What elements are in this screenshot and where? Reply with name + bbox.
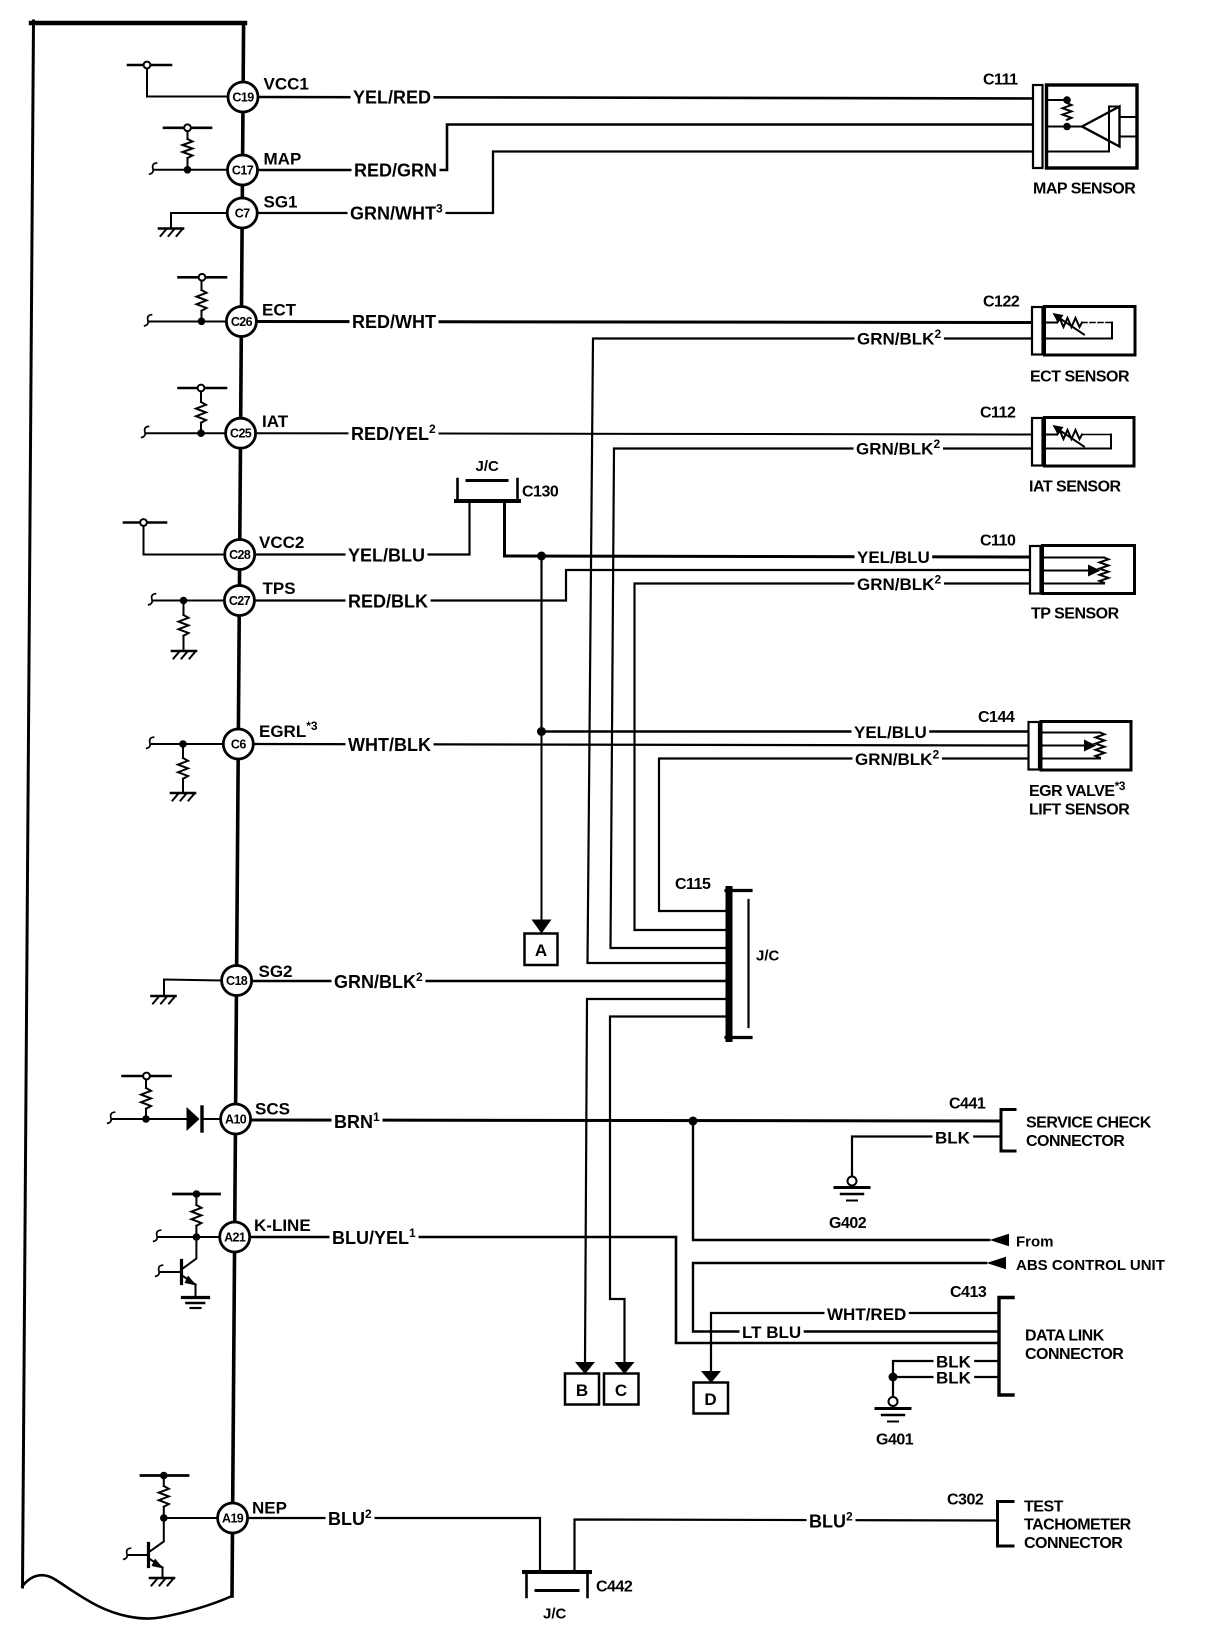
svg-text:TACHOMETER: TACHOMETER: [1024, 1517, 1132, 1534]
pull-down for pin C27: junction, resistor, ground: [149, 594, 226, 659]
off-page arrow B: [565, 1362, 599, 1405]
junction dot on A21 supply bar: [193, 1190, 201, 1198]
transistor base lead: [161, 1271, 182, 1273]
ground (hatch): [172, 650, 196, 653]
wire GRN/WHT3: pin C7 to MAP sensor: [258, 152, 1034, 214]
svg-text:CONNECTOR: CONNECTOR: [1024, 1535, 1123, 1552]
svg-text:BLK: BLK: [936, 1369, 972, 1388]
svg-text:C7: C7: [235, 207, 250, 221]
EGR valve lift sensor C144: connector bar: [1029, 722, 1040, 770]
label RED/YEL2: [349, 424, 439, 443]
label WHT/BLK: [346, 737, 434, 754]
ground (hatch): [152, 995, 176, 998]
svg-text:C112: C112: [980, 405, 1016, 422]
pin C28 (VCC2): [225, 540, 255, 570]
MAP sensor C111: connector bar: [1033, 85, 1043, 168]
junction node on BLK pair: [889, 1373, 898, 1382]
pin C7 (SG1): [227, 198, 257, 228]
svg-text:RED/BLK: RED/BLK: [348, 592, 428, 612]
svg-text:A10: A10: [225, 1113, 247, 1127]
junction connector J/C C130: [456, 479, 519, 501]
pin A21 (K-LINE): [220, 1222, 250, 1252]
svg-text:C18: C18: [226, 974, 248, 988]
junction dot on C6 wire: [179, 740, 187, 748]
wire-break hook: [147, 737, 154, 748]
potentiometer wiper arrow: [1041, 745, 1084, 747]
wire RED/GRN: pin C17 to MAP sensor: [257, 125, 1034, 171]
wire GRN/BLK2: pin C18 (SG2) to J/C C115: [252, 980, 727, 982]
wire BLU2: J/C C442 to test tachometer connector: [575, 1520, 999, 1571]
test tachometer connector C302 bracket: [998, 1502, 1014, 1547]
MAP sensor internal: signal node dot: [1063, 123, 1071, 131]
svg-text:ECT: ECT: [262, 301, 297, 320]
label GRN/BLK2 (IAT): [854, 439, 944, 458]
MAP sensor internal: ground return: [1047, 107, 1120, 152]
svg-text:GRN/BLK2: GRN/BLK2: [857, 573, 941, 595]
svg-text:TPS: TPS: [263, 579, 296, 598]
svg-text:RED/GRN: RED/GRN: [354, 161, 437, 181]
junction dot on A19 wire: [160, 1514, 168, 1522]
label GRN/BLK2 (SG2): [332, 972, 426, 991]
resistor (C17 pull-up): [183, 139, 193, 158]
service check connector C441 bracket: [1001, 1110, 1015, 1152]
svg-text:C413: C413: [950, 1284, 987, 1301]
thermistor resistor: [1057, 318, 1082, 327]
label GRN/BLK2 (ECT): [855, 329, 945, 348]
wire BLK: service check connector to ground G402: [852, 1137, 1000, 1177]
resistor (A19 pull-up): [159, 1486, 169, 1507]
junction connector J/C C115: [726, 890, 751, 1039]
internal ground for pin C7: [159, 213, 228, 236]
wire YEL/BLU: branch to EGR valve lift sensor: [542, 730, 1030, 733]
pull-up for pin C28: supply bar and open circle: [124, 519, 226, 554]
svg-text:GRN/BLK2: GRN/BLK2: [334, 970, 423, 992]
svg-text:EGR VALVE*3: EGR VALVE*3: [1029, 779, 1126, 800]
transistor Q (NEP driver): collector: [151, 1518, 164, 1551]
transistor Q (K-line driver): collector: [184, 1237, 197, 1268]
svg-text:A19: A19: [222, 1512, 244, 1526]
wire from C28 pull-up down and right to pin C28: [144, 526, 227, 555]
pin C19 (VCC1): [228, 82, 258, 112]
svg-text:WHT/RED: WHT/RED: [827, 1305, 906, 1324]
label BLK (service check): [933, 1130, 974, 1146]
wire LT BLU: data link connector to ABS arrow: [693, 1263, 998, 1332]
svg-text:GRN/BLK2: GRN/BLK2: [855, 748, 939, 770]
svg-text:A: A: [535, 941, 547, 960]
MAP sensor internal: op-amp triangle: [1082, 107, 1120, 147]
wire: J/C C115 to off-page arrow C: [610, 1017, 727, 1363]
svg-text:C130: C130: [522, 484, 559, 501]
svg-text:C28: C28: [229, 548, 251, 562]
svg-text:GRN/WHT3: GRN/WHT3: [350, 202, 443, 224]
wire-break hook: [154, 1230, 161, 1241]
svg-text:J/C: J/C: [476, 458, 500, 475]
wire-break hook: [150, 163, 157, 174]
pull-up and driver transistor for pin A19: [124, 1472, 218, 1586]
junction node on BRN wire: [689, 1117, 698, 1126]
wire-break hook: [108, 1112, 115, 1123]
junction node on YEL/BLU trunk: [537, 552, 546, 561]
pin C26 (ECT): [226, 307, 256, 337]
label GRN/BLK2 (TP): [855, 574, 945, 593]
pull-up for pin C26: supply bar, open circle, resistor, junction: [145, 274, 227, 326]
pin C18 (SG2): [222, 966, 252, 996]
svg-text:C115: C115: [675, 876, 711, 893]
junction dot on A10 wire: [142, 1115, 150, 1123]
data link connector C413 bracket: [999, 1298, 1013, 1396]
wire RED/BLK: pin C27 to TP sensor: [254, 570, 1031, 601]
wire from C19 pull-up down and right to pin C19: [147, 69, 229, 97]
pull-up for pin C25: supply bar, open circle, resistor, junction: [142, 385, 226, 438]
label RED/WHT: [350, 314, 439, 331]
ground G402: circle and bars: [848, 1177, 857, 1186]
pin C25 (IAT): [226, 418, 256, 448]
svg-text:C17: C17: [232, 164, 254, 178]
label YEL/RED: [351, 89, 434, 106]
svg-text:WHT/BLK: WHT/BLK: [348, 735, 431, 755]
svg-text:C111: C111: [983, 72, 1018, 89]
svg-text:LIFT SENSOR: LIFT SENSOR: [1029, 802, 1130, 819]
svg-text:LT BLU: LT BLU: [742, 1323, 801, 1342]
ECM enclosure top border: [31, 21, 245, 26]
ground (hatch) for A19 transistor: [150, 1577, 174, 1580]
svg-text:ABS CONTROL UNIT: ABS CONTROL UNIT: [1016, 1257, 1165, 1274]
junction dot on A21 wire: [193, 1233, 201, 1241]
label LT BLU: [740, 1325, 804, 1341]
svg-text:C27: C27: [229, 594, 251, 608]
ground (bar stack) for A21 transistor: [183, 1296, 209, 1299]
label BLU2 (left): [326, 1509, 375, 1528]
wire BLU2: pin A19 to J/C C442: [247, 1518, 540, 1570]
label RED/BLK: [346, 593, 431, 610]
transistor emitter with arrow: [151, 1560, 163, 1568]
EGR valve lift sensor C144: body (potentiometer): [1041, 722, 1131, 771]
svg-text:BLK: BLK: [935, 1129, 971, 1148]
potentiometer wiper arrow: [1043, 570, 1089, 572]
wire YEL/BLU: pin C28 to J/C C130: [254, 502, 470, 555]
svg-text:C144: C144: [978, 709, 1015, 726]
svg-text:TEST: TEST: [1024, 1499, 1064, 1516]
wire BRN1: pin A10 to service check connector: [252, 1120, 1000, 1121]
ground (hatch): [171, 792, 195, 795]
label BLK (data link 2): [934, 1370, 975, 1386]
junction dot on C26 wire: [198, 318, 206, 326]
svg-text:MAP: MAP: [264, 150, 302, 169]
resistor (A10 pull-up): [141, 1088, 151, 1109]
pull-down for pin C6: junction, resistor, ground: [147, 737, 225, 800]
svg-text:IAT SENSOR: IAT SENSOR: [1029, 479, 1122, 496]
pin C17 (MAP): [228, 155, 258, 185]
svg-text:YEL/BLU: YEL/BLU: [857, 548, 930, 567]
wire YEL/BLU trunk down to EGR branch and arrow A: [540, 556, 542, 732]
label BLK (data link 1): [934, 1354, 975, 1370]
wire into pin C26: [150, 321, 227, 323]
svg-text:GRN/BLK2: GRN/BLK2: [856, 437, 940, 459]
svg-text:K-LINE: K-LINE: [254, 1216, 311, 1235]
wire into pin A19: [164, 1517, 218, 1519]
svg-text:SCS: SCS: [255, 1100, 290, 1119]
internal ground for pin C18: [152, 980, 223, 1004]
wire BLK: data link connector pin 4: [893, 1361, 998, 1377]
svg-text:C26: C26: [231, 315, 253, 329]
svg-text:C441: C441: [949, 1096, 986, 1113]
label BRN1: [332, 1112, 383, 1131]
pin C27 (TPS): [224, 586, 254, 616]
svg-text:D: D: [704, 1390, 716, 1409]
svg-text:RED/WHT: RED/WHT: [352, 312, 436, 332]
pin C6 (EGRL): [223, 729, 253, 759]
label RED/GRN: [352, 162, 440, 179]
svg-text:B: B: [576, 1381, 588, 1400]
resistor (A21 pull-up): [191, 1205, 201, 1226]
ECT sensor C122: body (thermistor): [1045, 307, 1136, 356]
svg-text:SG2: SG2: [259, 962, 293, 981]
wire WHT/RED: data link connector to off-page arrow D: [711, 1313, 998, 1371]
pin A19 (NEP): [218, 1503, 248, 1533]
svg-text:C122: C122: [983, 294, 1020, 311]
junction dot on C27 wire: [180, 597, 188, 605]
ECM enclosure torn bottom edge (wavy): [23, 1575, 233, 1618]
transistor base bar: [180, 1261, 183, 1284]
junction dot on C17 wire: [184, 166, 192, 174]
wire into pin A21: [159, 1236, 220, 1238]
wire YEL/RED: pin C19 to MAP sensor: [257, 97, 1034, 99]
wire YEL/BLU: J/C C130 to TP sensor trunk: [505, 502, 1032, 557]
wire GRN/BLK2: ECT sensor to J/C C115: [588, 339, 1034, 964]
svg-text:GRN/BLK2: GRN/BLK2: [857, 327, 941, 349]
wire GRN/BLK2: EGR valve lift sensor to J/C C115: [659, 759, 1028, 912]
wire BLU/YEL1: pin A21 to data link connector: [250, 1237, 998, 1343]
svg-text:C442: C442: [596, 1579, 633, 1596]
IAT sensor C112: connector bar: [1032, 418, 1043, 466]
svg-text:G401: G401: [876, 1432, 914, 1449]
svg-text:NEP: NEP: [252, 1499, 287, 1518]
wire GRN/BLK2: IAT sensor to J/C C115: [611, 449, 1034, 949]
wire: BRN branch down to ABS arrow: [693, 1121, 989, 1240]
MAP sensor internal: resistor: [1063, 103, 1072, 120]
label BLU/YEL1: [330, 1228, 419, 1247]
wire: J/C C115 to off-page arrow B: [585, 999, 727, 1362]
label GRN/BLK2 (EGR): [853, 749, 943, 768]
wire BLK: data link connector pin 5: [893, 1376, 998, 1378]
svg-text:BLU/YEL1: BLU/YEL1: [332, 1226, 416, 1248]
svg-text:J/C: J/C: [756, 948, 780, 965]
svg-text:C302: C302: [947, 1492, 984, 1509]
off-page arrow D: [694, 1371, 729, 1414]
IAT sensor C112: body (thermistor): [1045, 418, 1135, 467]
junction dot on C25 wire: [197, 429, 205, 437]
TP sensor C110: body (potentiometer): [1043, 546, 1135, 594]
svg-text:C: C: [615, 1381, 627, 1400]
label GRN/WHT3: [348, 203, 446, 222]
svg-text:VCC1: VCC1: [264, 75, 309, 94]
off-page arrow A: [525, 920, 558, 966]
potentiometer resistor: [1096, 733, 1105, 758]
pull-up for pin C17: supply bar, open circle, resistor, junction: [150, 124, 228, 174]
svg-text:C25: C25: [230, 427, 252, 441]
thermistor resistor: [1057, 430, 1082, 439]
label YEL/BLU (TP): [855, 550, 933, 566]
arrowhead (from ABS control unit, line 1): [990, 1234, 1010, 1246]
wire-break hook: [149, 594, 156, 605]
wire GRN/BLK2: TP sensor to J/C C115: [635, 584, 1032, 931]
ECT sensor C122: connector bar: [1032, 307, 1043, 355]
ECM pin bus column: [232, 23, 244, 1596]
MAP sensor internal: supply node dot: [1063, 96, 1071, 104]
transistor emitter with arrow: [184, 1277, 196, 1285]
svg-text:TP SENSOR: TP SENSOR: [1031, 606, 1120, 623]
transistor base bar: [147, 1544, 150, 1567]
potentiometer resistor: [1100, 558, 1109, 583]
transistor base lead: [129, 1554, 149, 1556]
wire WHT/BLK: pin C6 to EGR valve lift sensor: [253, 744, 1028, 746]
svg-text:C19: C19: [232, 91, 254, 105]
ground (hatch): [159, 227, 183, 230]
svg-text:From: From: [1016, 1234, 1054, 1251]
svg-text:YEL/BLU: YEL/BLU: [854, 723, 927, 742]
wire-break hook: [145, 315, 152, 326]
wire into pin C17: [155, 169, 228, 171]
svg-text:MAP SENSOR: MAP SENSOR: [1033, 181, 1136, 198]
diode cathode bar: [200, 1107, 203, 1131]
svg-text:DATA LINK: DATA LINK: [1025, 1328, 1105, 1345]
pin A10 (SCS): [221, 1104, 251, 1134]
svg-text:C110: C110: [980, 533, 1016, 550]
MAP sensor C111: body: [1047, 85, 1138, 168]
svg-text:VCC2: VCC2: [259, 533, 304, 552]
resistor (C27 pull-down): [179, 615, 189, 636]
junction dot on A19 supply bar: [160, 1472, 168, 1480]
ground G401: circle and bars: [889, 1397, 898, 1406]
svg-text:CONNECTOR: CONNECTOR: [1025, 1346, 1124, 1363]
TP sensor C110: connector bar: [1030, 546, 1041, 594]
wire RED/YEL2: pin C25 to IAT sensor: [256, 433, 1033, 434]
svg-text:CONNECTOR: CONNECTOR: [1026, 1133, 1125, 1150]
wire YEL/BLU trunk segment to off-page arrow A: [541, 732, 543, 920]
resistor (C6 pull-down): [178, 758, 188, 779]
svg-text:IAT: IAT: [262, 412, 289, 431]
arrowhead (from ABS control unit, line 2): [987, 1257, 1007, 1269]
svg-text:C6: C6: [231, 738, 246, 752]
svg-text:YEL/BLU: YEL/BLU: [348, 546, 425, 566]
pull-up for pin C19: supply bar and open circle: [128, 62, 229, 97]
wire into pin C25: [147, 432, 226, 434]
thermistor arrow: [1060, 319, 1084, 335]
wire: BLK pair down to ground G401: [892, 1377, 894, 1397]
off-page arrow C: [604, 1362, 639, 1405]
label YEL/BLU (EGR): [852, 725, 930, 741]
svg-text:SG1: SG1: [264, 193, 298, 212]
pull-up and diode for pin A10: [108, 1073, 221, 1131]
junction connector J/C C442: [524, 1572, 590, 1597]
pull-up and driver transistor for pin A21: [154, 1190, 220, 1308]
svg-text:SERVICE CHECK: SERVICE CHECK: [1026, 1115, 1152, 1132]
thermistor arrow: [1060, 431, 1084, 447]
svg-text:A21: A21: [224, 1231, 246, 1245]
svg-text:YEL/RED: YEL/RED: [353, 88, 431, 108]
resistor (C25 pull-up): [196, 402, 206, 423]
svg-text:RED/YEL2: RED/YEL2: [351, 422, 436, 444]
label YEL/BLU: [346, 547, 428, 564]
label WHT/RED: [825, 1307, 909, 1323]
svg-text:ECT SENSOR: ECT SENSOR: [1030, 369, 1130, 386]
diode (anode triangle): [187, 1107, 200, 1131]
wire RED/WHT: pin C26 to ECT sensor: [257, 322, 1033, 323]
ECM enclosure left border: [23, 21, 34, 1587]
junction node on YEL/BLU trunk at EGR branch: [537, 727, 546, 736]
wire-break hook: [142, 426, 149, 437]
label BLU2 (right): [807, 1511, 856, 1530]
resistor (C26 pull-up): [197, 290, 207, 311]
wire from hook through diode into pin A10: [113, 1118, 187, 1120]
svg-text:G402: G402: [829, 1215, 867, 1232]
svg-text:J/C: J/C: [543, 1606, 567, 1623]
